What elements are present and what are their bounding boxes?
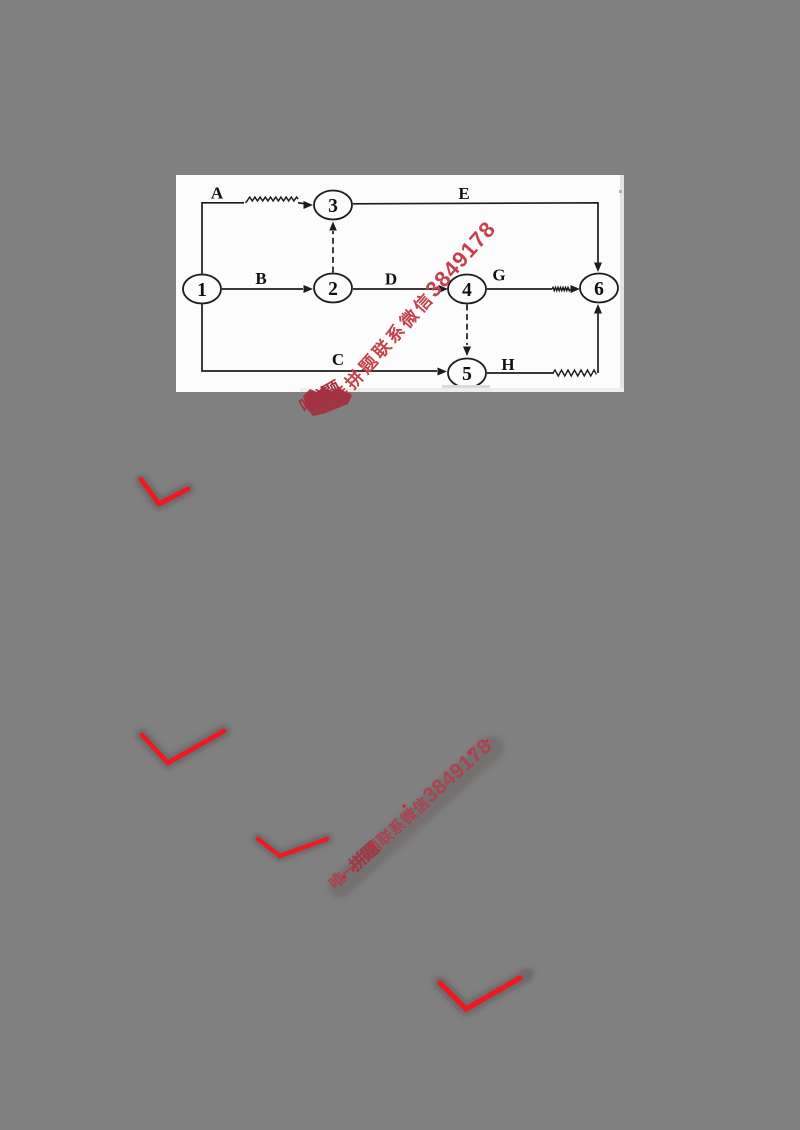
red flecks on watermark 2: [342, 740, 489, 880]
arrowhead dashed into 5 top: [463, 347, 471, 357]
arrowhead D into 4: [439, 285, 449, 293]
svg-text:3: 3: [328, 196, 338, 217]
wire E from node 3 to corner and down to node 6: [353, 203, 598, 263]
checkmark 2: [142, 731, 224, 763]
wire A zigzag: [246, 197, 299, 203]
node 3: [314, 191, 352, 220]
svg-text:唯一拼题联系微信3849178: 唯一拼题联系微信3849178: [323, 734, 496, 893]
node 6: [580, 274, 618, 303]
wire H zigzag: [553, 370, 596, 376]
svg-text:E: E: [458, 184, 469, 203]
arrowhead C into 5: [438, 368, 448, 376]
svg-text:B: B: [255, 269, 266, 288]
svg-text:4: 4: [462, 280, 472, 301]
scan paper box: [176, 175, 624, 392]
labels: [211, 184, 515, 375]
svg-text:6: 6: [594, 279, 604, 300]
svg-text:C: C: [332, 350, 344, 369]
svg-text:D: D: [385, 270, 397, 289]
wire H from 5 with zigzag and up to 6: [487, 372, 554, 374]
dashed wire 2 to 3: [332, 231, 334, 273]
gray smudge under node 5: [442, 385, 490, 392]
wire G from 4 to 6 straight part: [487, 288, 552, 290]
checkmark 3: [258, 839, 327, 856]
watermark 2 diagonal lower: [323, 734, 496, 893]
watermark blob solid core: [303, 387, 352, 416]
wire A vertical from node 1: [202, 203, 244, 274]
halo under checkmark 4: [440, 975, 527, 1009]
svg-text:1: 1: [197, 280, 207, 301]
halo under checkmark 3: [258, 839, 327, 856]
halo under watermark 2: [340, 748, 492, 886]
halo under checkmark 1: [142, 481, 188, 504]
wire A end: [298, 202, 305, 205]
node 1: [183, 275, 221, 304]
wire D from 2 to 4: [353, 288, 438, 290]
wire B from 1 to 2: [222, 288, 303, 290]
watermark 1 diagonal in box: [325, 216, 501, 409]
svg-text:G: G: [492, 266, 505, 285]
node 5: [448, 359, 486, 388]
node 4: [448, 275, 486, 304]
halo under checkmark 2: [142, 731, 224, 763]
speck top right: [619, 190, 622, 193]
watermark 2 bold chunk: [345, 837, 384, 875]
svg-text:H: H: [501, 355, 514, 374]
arrowhead A into 3: [304, 201, 314, 209]
checkmark 1: [141, 480, 188, 505]
svg-text:5: 5: [462, 364, 472, 385]
dashed wire 4 to 5: [466, 305, 468, 346]
wire C from 1 down and right to 5: [202, 303, 437, 371]
svg-text:2: 2: [328, 279, 338, 300]
arrowhead G into 6: [571, 285, 581, 293]
arrowhead H up into 6: [594, 304, 602, 314]
arrowhead B into 2: [304, 285, 314, 293]
arrowheads: [304, 201, 603, 376]
checkmark 4: [440, 978, 520, 1009]
watermark bold blob at box bottom: [296, 377, 345, 417]
arrowhead dashed into 3 bottom: [329, 222, 337, 231]
arrowhead E down into 6: [594, 263, 602, 273]
wire H vertical up to node 6: [597, 313, 599, 373]
node 2: [314, 274, 352, 303]
svg-text:A: A: [211, 184, 224, 203]
wire G zigzag: [552, 287, 570, 290]
